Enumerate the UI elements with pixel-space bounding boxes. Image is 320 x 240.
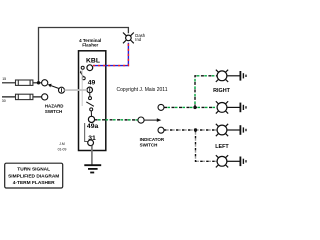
svg-text:Ind: Ind bbox=[135, 37, 141, 42]
svg-text:30: 30 bbox=[2, 99, 6, 103]
indicator switch contact right bbox=[158, 104, 164, 110]
svg-text:Flasher: Flasher bbox=[82, 42, 98, 47]
svg-text:01-09: 01-09 bbox=[58, 148, 67, 152]
switch 1 contact bbox=[81, 66, 84, 69]
lamp left rear bbox=[216, 155, 228, 167]
lamp dash indicator bbox=[123, 33, 134, 44]
ground lamp right rear bbox=[227, 103, 246, 113]
ground lamp right front bbox=[227, 71, 246, 81]
title box bbox=[5, 163, 63, 188]
svg-text:TURN SIGNAL: TURN SIGNAL bbox=[17, 167, 50, 173]
lamp right rear bbox=[216, 101, 228, 113]
terminal 49a bbox=[88, 116, 94, 122]
wire 15 bbox=[2, 82, 42, 84]
wire top feed from fuse 15 junction to dash indicator bbox=[39, 28, 129, 83]
flasher box bbox=[79, 51, 106, 151]
svg-text:RIGHT: RIGHT bbox=[213, 88, 230, 94]
indicator switch contact left bbox=[158, 127, 164, 133]
ground bbox=[84, 165, 101, 172]
hazard switch contact 15 bbox=[42, 80, 48, 86]
hazard switch contact 30 bbox=[42, 94, 48, 100]
ground lamp left rear bbox=[227, 157, 246, 167]
svg-text:KBL: KBL bbox=[86, 58, 100, 65]
switch 1 blade bbox=[82, 77, 85, 80]
svg-text:Copyright J. Mais 2011: Copyright J. Mais 2011 bbox=[117, 87, 168, 93]
wire switch 2 to terminal 49a bbox=[90, 111, 92, 116]
indicator switch blade bbox=[144, 119, 158, 121]
wire 49a to indicator switch (green/black dashed) bbox=[95, 119, 139, 121]
mechanical link (gray) bbox=[81, 70, 83, 106]
fuse F15 bbox=[16, 80, 33, 85]
fuse F30 bbox=[16, 94, 33, 99]
wire internal to terminal 31 bbox=[85, 123, 88, 142]
wire 31 to ground bbox=[91, 146, 93, 165]
svg-text:SWITCH: SWITCH bbox=[45, 109, 62, 114]
svg-text:15: 15 bbox=[2, 77, 6, 81]
svg-text:SIMPLIFIED DIAGRAM: SIMPLIFIED DIAGRAM bbox=[8, 173, 59, 179]
hazard switch common terminal bbox=[59, 87, 65, 93]
lamp right front bbox=[216, 70, 228, 82]
wire right-turn (green/black dashed) bbox=[164, 76, 217, 108]
wire 49 to switch 2 bbox=[89, 93, 91, 97]
wire left-turn (black/gray dashed) bbox=[164, 130, 217, 161]
indicator switch common bbox=[138, 117, 144, 123]
svg-text:49: 49 bbox=[88, 79, 96, 86]
lamp left front bbox=[216, 124, 228, 136]
ground lamp left front bbox=[227, 125, 246, 135]
svg-text:LEFT: LEFT bbox=[215, 144, 229, 150]
switch 2 bbox=[89, 97, 92, 100]
junction left wire bbox=[194, 128, 197, 131]
svg-text:J.M: J.M bbox=[59, 142, 65, 146]
hazard switch blade bbox=[50, 85, 59, 88]
junction right wire bbox=[193, 106, 196, 109]
svg-text:SWITCH: SWITCH bbox=[140, 142, 158, 147]
wire KBL terminal to dash indicator (blue/red dashed) bbox=[93, 43, 128, 66]
wire 30 bbox=[2, 96, 42, 98]
junction 15/feed bbox=[37, 81, 40, 84]
svg-text:4-TERM FLASHER: 4-TERM FLASHER bbox=[13, 180, 55, 186]
svg-text:49a: 49a bbox=[87, 123, 99, 130]
wire hazard common to 49 (gray) bbox=[64, 89, 87, 91]
